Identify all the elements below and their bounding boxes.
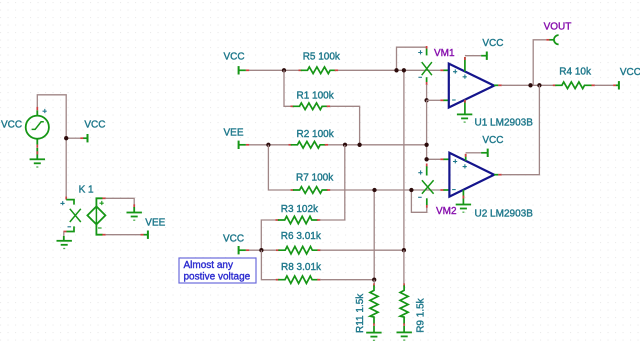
wire to ground	[63, 232, 65, 237]
svg-text:U2 LM2903B: U2 LM2903B	[475, 208, 534, 219]
wire VEE row	[249, 144, 289, 146]
node R3 top	[343, 143, 347, 147]
pin tips source bottom	[36, 145, 38, 155]
svg-text:R9 1.5k: R9 1.5k	[416, 297, 427, 332]
node VCC row / vertical	[402, 68, 406, 72]
node R7/R11	[372, 188, 376, 192]
plus mark U1 input	[453, 69, 457, 73]
voltmeter VM1 X	[422, 62, 432, 75]
VM1 loop wire	[397, 47, 427, 70]
node R5 left	[282, 68, 286, 72]
wire R9 top	[403, 250, 405, 284]
pin tip ground	[133, 204, 135, 207]
node R2 join	[424, 143, 428, 147]
annotation text box	[179, 258, 256, 283]
VCC port (R5 row)	[238, 66, 240, 74]
svg-text:VOUT: VOUT	[544, 21, 572, 32]
resistor R11 (vertical)	[370, 283, 378, 332]
svg-text:Almost any: Almost any	[184, 260, 233, 271]
op-amp U2 triangle	[449, 153, 494, 197]
K1 sense bottom bracket	[66, 226, 74, 231]
pin tip VM1 minus	[426, 82, 428, 85]
svg-text:VCC: VCC	[84, 119, 105, 130]
pin tip U1 minus input	[440, 99, 443, 101]
pin tip U2 supply	[465, 154, 467, 157]
svg-text:VCC: VCC	[1, 119, 22, 130]
plus mark U2 input	[453, 159, 457, 163]
resistor R2	[289, 142, 329, 149]
svg-text:VM1: VM1	[434, 48, 455, 59]
wire diamond top to ground	[105, 198, 134, 204]
node U1 minus	[424, 98, 428, 102]
pin tip U1 supply	[464, 57, 466, 60]
VEE port lead	[144, 234, 148, 236]
VCC port lead (right)	[616, 84, 619, 86]
voltage source VS1 circle	[26, 110, 49, 145]
U2 supply stub	[465, 154, 467, 161]
VCC port bar (right)	[618, 81, 620, 89]
wire R1 right down to R2 row	[330, 106, 360, 145]
VCC port lead (U2)	[481, 152, 487, 154]
long vertical VCC row to R6 row	[403, 70, 405, 250]
VCC port (R6 row)	[238, 246, 240, 254]
VOUT wire	[533, 40, 546, 86]
pin lead U1 output	[494, 84, 498, 86]
svg-text:K 1: K 1	[79, 184, 94, 195]
K1 sense top bracket	[66, 200, 74, 205]
VOUT port arc	[554, 35, 559, 44]
node R1 bottom	[357, 143, 361, 147]
ground (VS2 top)	[127, 213, 142, 221]
pin tip U1 plus input	[440, 69, 443, 71]
node U2 output branch	[537, 83, 541, 87]
VCC port bar (U1)	[486, 52, 488, 60]
pin tip U2 output	[498, 174, 502, 176]
wire R3 right up to R2 row	[320, 145, 345, 220]
node VOUT branch	[528, 83, 532, 87]
vertical wire U1- to U2+	[427, 100, 441, 159]
svg-text:VCC: VCC	[482, 38, 503, 49]
wire U1 output	[501, 84, 553, 86]
wire R6 right to R9 column	[320, 249, 404, 251]
ground (K1)	[56, 241, 71, 249]
wire R5 to VM1 area	[338, 69, 440, 71]
plus mark diamond	[100, 201, 104, 205]
wire U2 supply	[466, 152, 481, 154]
pin tip	[613, 84, 616, 86]
node U2 plus corner	[424, 157, 428, 161]
VM2 plus stub	[426, 166, 428, 175]
pin tip VOUT	[546, 39, 549, 41]
resistor R3	[276, 216, 321, 223]
ground (U2)	[456, 205, 471, 213]
VCC port bar (U2)	[487, 149, 489, 157]
lead U2 plus input	[443, 158, 449, 160]
wire down to R1	[284, 70, 291, 106]
svg-text:VCC: VCC	[482, 135, 503, 146]
wire U2 output up to R4 node	[501, 85, 539, 174]
pin tip VM2 minus	[426, 205, 428, 208]
svg-text:R4 10k: R4 10k	[559, 66, 592, 77]
pin tip diamond bottom	[102, 234, 105, 236]
svg-text:R3 102k: R3 102k	[281, 204, 319, 215]
plus mark VM2	[418, 170, 422, 174]
ground (source)	[30, 159, 45, 167]
wire down to R7	[268, 145, 290, 190]
minus mark U2	[452, 189, 456, 191]
lead U2 minus input	[443, 189, 449, 191]
wire diamond bottom to VEE port	[105, 234, 140, 236]
wire R11 top	[373, 280, 375, 284]
resistor R1	[291, 103, 331, 110]
minus mark VM2	[418, 196, 422, 198]
U1 supply stub	[464, 57, 466, 72]
svg-text:R1 100k: R1 100k	[297, 91, 335, 102]
svg-text:VEE: VEE	[145, 217, 165, 228]
controlled source VS2 diamond	[87, 198, 105, 234]
pin tip	[80, 137, 83, 139]
svg-text:R11 1.5k: R11 1.5k	[355, 293, 366, 333]
plus mark U2 inner	[463, 164, 467, 168]
wire R3 left down to R6 row	[261, 220, 275, 250]
wire down to R8	[261, 250, 276, 280]
resistor R5	[299, 67, 339, 74]
pin tip U2 plus input	[440, 158, 443, 160]
node VM1 loop	[394, 68, 398, 72]
U2 ground stub	[462, 190, 464, 205]
pin tip diamond top	[102, 197, 105, 199]
wire to VCC port	[66, 137, 80, 139]
lead U1 minus input	[443, 99, 448, 101]
wire VM1 minus down	[426, 85, 428, 101]
voltmeter VM2 X	[422, 180, 434, 194]
resistor R4	[553, 82, 595, 89]
svg-text:VCC: VCC	[224, 51, 245, 62]
VCC port bar	[87, 134, 89, 142]
lead U1 plus input	[443, 69, 448, 71]
ground stem	[63, 236, 65, 241]
svg-text:postive voltage: postive voltage	[184, 272, 251, 283]
minus mark VM1	[418, 76, 422, 78]
VEE port (R2 row)	[238, 141, 240, 149]
wire VCC row 3	[249, 249, 276, 251]
ground (R11)	[366, 333, 381, 341]
wire R4 to VCC port	[595, 84, 614, 86]
node VM2 loop	[409, 188, 413, 192]
vertical wire R7-R8 column	[373, 190, 375, 280]
pin tip source top	[36, 107, 38, 110]
pin tip U2 ground	[462, 196, 464, 199]
ground (U1)	[457, 114, 472, 122]
node VEE row left	[266, 143, 270, 147]
VM2 loop wire	[411, 190, 426, 212]
wire R8 right to R11	[320, 279, 374, 281]
junction node	[64, 136, 68, 140]
wire U1 minus input	[427, 99, 441, 101]
VM1 minus stub	[426, 77, 428, 82]
VEE port bar	[147, 231, 149, 239]
minus mark K1	[68, 226, 72, 228]
VM1 plus stub	[426, 49, 428, 56]
pin lead U2 output	[494, 174, 498, 176]
op-amp U1 triangle	[449, 64, 494, 108]
svg-text:R7 100k: R7 100k	[296, 172, 334, 183]
node R6 left	[259, 248, 263, 252]
svg-text:R2 100k: R2 100k	[297, 129, 335, 140]
svg-text:VEE: VEE	[224, 127, 244, 138]
pin tip U1 output	[498, 84, 502, 86]
svg-text:R8 3.01k: R8 3.01k	[281, 262, 322, 273]
wire R7 to U2	[330, 189, 440, 191]
minus mark diamond	[98, 227, 102, 229]
pin tip VM1 plus	[426, 46, 428, 49]
plus mark VM1	[418, 50, 422, 54]
svg-text:U1 LM2903B: U1 LM2903B	[475, 117, 534, 128]
node R6/R9	[402, 248, 406, 252]
wire U1 supply	[465, 55, 481, 57]
resistor R7	[291, 187, 331, 194]
U1 ground stub	[464, 100, 466, 115]
resistor R6	[276, 247, 321, 254]
VM2 minus stub	[426, 198, 428, 205]
svg-text:VCC: VCC	[620, 67, 640, 78]
plus mark K1	[60, 201, 64, 205]
plus mark source	[43, 109, 47, 113]
pin tip U2 minus input	[440, 189, 443, 191]
ground stem	[133, 207, 135, 213]
wire R2 right to U1 column	[328, 144, 427, 146]
svg-text:R6 3.01k: R6 3.01k	[281, 231, 322, 242]
ground (R9)	[397, 332, 412, 340]
K1 X symbol	[70, 209, 81, 222]
svg-text:VCC: VCC	[223, 233, 244, 244]
svg-text:VM2: VM2	[436, 206, 457, 217]
VCC port lead	[83, 137, 87, 139]
wire VCC row	[249, 69, 299, 71]
wire source top loop	[37, 95, 66, 197]
resistor R9 (vertical)	[400, 283, 408, 332]
ground stem below source	[36, 148, 38, 160]
pin tip VM2 plus	[426, 164, 428, 167]
svg-text:R5 100k: R5 100k	[303, 51, 341, 62]
pin tip K1 top	[65, 197, 67, 200]
VCC port lead (U1)	[481, 55, 486, 57]
resistor R8	[276, 276, 321, 283]
node R8/R11	[372, 278, 376, 282]
plus mark U1 inner	[463, 75, 467, 79]
pin tip K1 bottom	[63, 231, 66, 233]
pin tip VEE	[141, 234, 144, 236]
pin tip U1 ground	[464, 100, 466, 103]
VOUT lead	[549, 39, 554, 41]
minus mark U1	[452, 99, 456, 101]
